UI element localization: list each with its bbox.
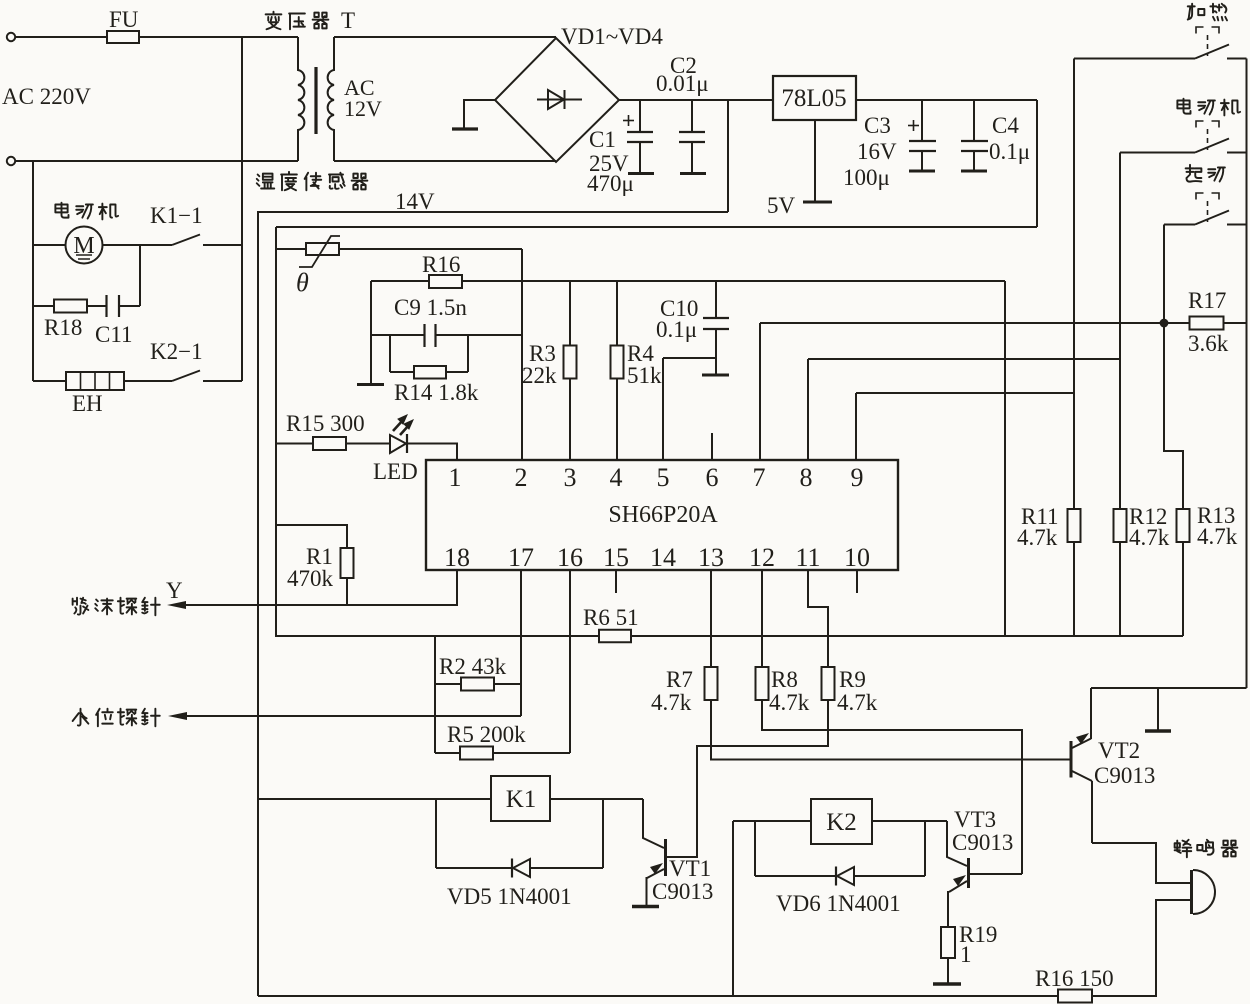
svg-text:Y: Y bbox=[166, 578, 183, 603]
AC neutral input terminal bbox=[7, 157, 15, 165]
resistor R17 bbox=[1190, 317, 1224, 330]
svg-text:C9013: C9013 bbox=[952, 830, 1013, 855]
wire 14V line bbox=[257, 211, 728, 213]
start switch dashed link bbox=[1207, 201, 1209, 222]
C1 plus sign bbox=[623, 115, 634, 126]
AC live input terminal bbox=[7, 33, 15, 41]
LED D1 bbox=[390, 434, 407, 453]
wire vertical FU line down to motor branch bbox=[241, 37, 243, 381]
motor switch dashed link bbox=[1207, 129, 1209, 150]
svg-text:C1: C1 bbox=[589, 127, 616, 152]
svg-text:AC 220V: AC 220V bbox=[2, 84, 91, 109]
VT3 ground bar bbox=[933, 982, 961, 985]
wire R9 to VT1 base bbox=[667, 700, 828, 857]
wire to K2 bbox=[733, 820, 811, 822]
label EH bbox=[72, 391, 103, 416]
svg-text:LED: LED bbox=[373, 459, 418, 484]
label start switch bbox=[1186, 165, 1225, 182]
wire R19 bottom bbox=[947, 958, 949, 983]
label R9 4.7k bbox=[837, 667, 878, 715]
resistor R9 bbox=[822, 667, 835, 700]
svg-text:470k: 470k bbox=[287, 566, 334, 591]
svg-text:4.7k: 4.7k bbox=[1197, 524, 1238, 549]
transformer T primary winding bbox=[298, 37, 304, 161]
label R7 4.7k bbox=[651, 667, 693, 715]
wire motor switch vertical bbox=[1119, 153, 1121, 637]
wire live terminal to fuse bbox=[15, 36, 107, 38]
label K1-1 bbox=[150, 203, 203, 228]
ground bar 5V bbox=[803, 201, 832, 204]
pin 15 label bbox=[603, 543, 629, 572]
resistor R15 bbox=[313, 437, 346, 450]
label VT1 C9013 bbox=[652, 856, 713, 904]
ground bar at bridge bbox=[452, 127, 478, 130]
wire R14 right bbox=[446, 371, 468, 373]
wire to K1 bbox=[258, 798, 491, 800]
pin 4 label bbox=[610, 463, 623, 492]
resistor R12 bbox=[1114, 509, 1127, 542]
wire R1 bottom bbox=[346, 578, 348, 605]
water probe arrow bbox=[168, 712, 187, 720]
motor switch blade bbox=[1195, 139, 1229, 153]
pin 13 label bbox=[698, 543, 724, 572]
svg-text:14V: 14V bbox=[395, 189, 435, 214]
switch K1-1 blade bbox=[172, 235, 200, 246]
heater EH bbox=[66, 372, 124, 390]
svg-text:C9013: C9013 bbox=[1094, 763, 1155, 788]
svg-text:8: 8 bbox=[800, 463, 813, 492]
resistor R1 bbox=[341, 548, 354, 578]
svg-text:C9013: C9013 bbox=[652, 879, 713, 904]
resistor R5 bbox=[460, 747, 493, 760]
label VD6 1N4001 bbox=[776, 891, 901, 916]
ground bar below R16 left bbox=[357, 383, 384, 386]
IC U1 SH66P20A box bbox=[426, 460, 898, 570]
wire pin8 line bbox=[808, 358, 1120, 360]
svg-text:4.7k: 4.7k bbox=[1017, 525, 1058, 550]
pin 18 label bbox=[444, 543, 470, 572]
label R5 200k bbox=[447, 722, 526, 747]
svg-text:R16: R16 bbox=[422, 252, 460, 277]
svg-text:EH: EH bbox=[72, 391, 103, 416]
pin 10 label bbox=[844, 543, 870, 572]
wire pin8 vertical bbox=[807, 359, 809, 460]
label K2-1 bbox=[150, 339, 203, 364]
wire neutral terminal to primary bottom bbox=[15, 160, 298, 162]
wire VT2 emitter rail bbox=[1091, 687, 1247, 689]
wire R14 left bbox=[390, 371, 414, 373]
wire C11 to node bbox=[120, 305, 141, 307]
svg-text:θ: θ bbox=[296, 268, 309, 297]
VT1 emitter bbox=[647, 863, 665, 906]
label R1 470k bbox=[287, 544, 334, 591]
switch K2-1 blade bbox=[172, 371, 200, 382]
label VD5 1N4001 bbox=[447, 884, 572, 909]
wire LED to pin1 bbox=[408, 444, 457, 461]
resistor R19 bbox=[941, 927, 955, 958]
svg-text:4.7k: 4.7k bbox=[1129, 525, 1170, 550]
wire C10 ground stub bbox=[715, 358, 717, 374]
svg-text:VD6 1N4001: VD6 1N4001 bbox=[776, 891, 901, 916]
svg-text:15: 15 bbox=[603, 543, 629, 572]
wire to start switch bbox=[1164, 224, 1195, 226]
label R3 22k bbox=[522, 341, 557, 388]
svg-text:2: 2 bbox=[515, 463, 528, 492]
pin 17 label bbox=[508, 543, 534, 572]
wire right edge vertical bbox=[1246, 59, 1248, 689]
svg-text:0.1μ: 0.1μ bbox=[656, 317, 697, 342]
wire EH to K2-1 bbox=[124, 380, 172, 382]
svg-text:R2 43k: R2 43k bbox=[439, 654, 507, 679]
pin 1 label bbox=[449, 463, 462, 492]
label VT2 C9013 bbox=[1094, 738, 1155, 788]
wire R16 to right corner bbox=[462, 280, 1005, 282]
svg-text:R15 300: R15 300 bbox=[286, 411, 365, 436]
buzzer bbox=[1192, 870, 1216, 914]
C3 plus sign bbox=[908, 120, 919, 131]
wire VD5 right rise bbox=[602, 799, 604, 868]
transformer T secondary winding bbox=[328, 37, 334, 161]
pin15 stub bbox=[615, 570, 617, 593]
wire R16 rail left end bbox=[371, 280, 429, 282]
svg-text:18: 18 bbox=[444, 543, 470, 572]
pin 3 label bbox=[564, 463, 577, 492]
wire R18 to C11 bbox=[87, 305, 106, 307]
label motor switch bbox=[1177, 99, 1240, 116]
wire pin12 down bbox=[761, 570, 763, 667]
label SH66P20A bbox=[608, 502, 718, 528]
relay K2 bbox=[811, 799, 872, 844]
svg-text:K1: K1 bbox=[506, 786, 537, 813]
label R15 300 bbox=[286, 411, 365, 436]
svg-text:4.7k: 4.7k bbox=[837, 690, 878, 715]
wire R2/R5 left vertical bbox=[434, 636, 436, 753]
wire R7 to VT2 base bbox=[711, 700, 1071, 760]
VT1 base lead bbox=[666, 856, 697, 858]
wire K2-1 to right vertical bbox=[203, 380, 242, 382]
svg-text:R16 150: R16 150 bbox=[1035, 966, 1114, 991]
wire R2 left bbox=[435, 683, 461, 685]
pin 14 label bbox=[650, 543, 676, 572]
svg-text:9: 9 bbox=[851, 463, 864, 492]
svg-text:R6 51: R6 51 bbox=[583, 605, 639, 630]
label R14 1.8k bbox=[394, 380, 479, 405]
pin 5 label bbox=[657, 463, 670, 492]
wire neutral down left side bbox=[32, 161, 34, 381]
label K2 bbox=[826, 809, 857, 836]
wire to motor switch bbox=[1120, 152, 1195, 154]
wire heating switch to right edge bbox=[1227, 58, 1247, 60]
label AC 220V bbox=[2, 84, 91, 109]
label R17 3.6k bbox=[1188, 288, 1229, 356]
wire R8 to VT3 base bbox=[762, 700, 1022, 874]
wire pin7 vertical bbox=[759, 323, 761, 460]
wire VD6 left bbox=[755, 875, 836, 877]
resistor R7 bbox=[705, 667, 718, 700]
svg-text:5V: 5V bbox=[767, 193, 796, 218]
wire 5V rail 78L05 to corner bbox=[856, 99, 1037, 101]
resistor R16 bbox=[429, 275, 462, 288]
wire R16 rail right corner down bbox=[1004, 281, 1006, 636]
wire VT3 collector bbox=[947, 821, 967, 866]
svg-text:VT2: VT2 bbox=[1098, 738, 1140, 763]
svg-text:K2−1: K2−1 bbox=[150, 339, 203, 364]
wire R14 left drop bbox=[389, 335, 391, 372]
label LED bbox=[373, 459, 418, 484]
svg-text:10: 10 bbox=[844, 543, 870, 572]
label 5V bbox=[767, 193, 796, 218]
svg-text:R18: R18 bbox=[44, 315, 82, 340]
label R6 51 bbox=[583, 605, 639, 630]
resistor R4 bbox=[611, 346, 624, 379]
label foam probe bbox=[73, 598, 160, 616]
svg-text:SH66P20A: SH66P20A bbox=[608, 502, 718, 528]
wire C10 bottom to pin5 bbox=[663, 357, 716, 359]
pin10 stub bbox=[856, 570, 858, 593]
wire pin11 jog bbox=[808, 570, 828, 667]
wire 14V left edge down bbox=[257, 212, 259, 996]
pin6 stub bbox=[711, 433, 713, 460]
svg-text:C11: C11 bbox=[95, 322, 133, 347]
wire thermistor line down to IC pin 2 bbox=[521, 249, 523, 460]
svg-text:0.01μ: 0.01μ bbox=[656, 71, 709, 96]
fuse FU bbox=[107, 31, 139, 43]
wire pin3 vertical bbox=[569, 281, 571, 460]
wire motor switch to right edge bbox=[1227, 152, 1247, 154]
thermistor theta body bbox=[306, 243, 339, 255]
bridge rectifier VD1~VD4 diamond bbox=[495, 38, 619, 162]
svg-text:7: 7 bbox=[753, 463, 766, 492]
wire to heating switch bbox=[1074, 58, 1195, 60]
wire VD6 right bbox=[854, 875, 925, 877]
svg-text:R9: R9 bbox=[839, 667, 866, 692]
svg-text:3.6k: 3.6k bbox=[1188, 331, 1229, 356]
wire left to heater EH bbox=[33, 380, 66, 382]
wire secondary bottom to bridge bbox=[334, 160, 556, 162]
wire 5V rail to left bbox=[276, 226, 1037, 228]
label motor bbox=[55, 203, 118, 220]
wire rail down to 14V line bbox=[727, 100, 729, 212]
wire pin17 down bbox=[520, 570, 522, 716]
ground bar below C10 bbox=[702, 374, 729, 377]
svg-text:4: 4 bbox=[610, 463, 623, 492]
svg-text:R17: R17 bbox=[1188, 288, 1226, 313]
label Y bbox=[166, 578, 183, 603]
label R8 4.7k bbox=[769, 667, 810, 715]
foam probe arrow bbox=[167, 601, 186, 609]
transistor VT1 base bar bbox=[664, 839, 667, 876]
wire 14V bottom rail bbox=[258, 995, 1157, 997]
svg-text:78L05: 78L05 bbox=[781, 85, 846, 112]
svg-text:470μ: 470μ bbox=[587, 171, 634, 196]
svg-text:VD1~VD4: VD1~VD4 bbox=[561, 24, 663, 49]
svg-text:K2: K2 bbox=[826, 809, 857, 836]
capacitor C2 bbox=[679, 100, 706, 174]
wire motor to K1-1 bbox=[103, 244, 173, 246]
heating switch blade bbox=[1195, 45, 1229, 59]
wire 14V rail bridge to 78L05 bbox=[619, 99, 773, 101]
resistor R2 bbox=[461, 678, 494, 691]
VT3 base lead bbox=[969, 873, 1022, 875]
label C9 1.5n bbox=[394, 295, 467, 320]
wire R5 right bbox=[493, 752, 570, 754]
wire K1 to VT1 bbox=[550, 798, 643, 800]
label R18 bbox=[44, 315, 82, 340]
label VT3 C9013 bbox=[952, 807, 1013, 855]
start switch bracket bbox=[1196, 193, 1219, 200]
regulator 78L05 bbox=[773, 76, 856, 120]
LED arrows bbox=[393, 415, 413, 435]
label R2 43k bbox=[439, 654, 507, 679]
bridge inner diode bbox=[537, 90, 582, 109]
resistor R18 bbox=[54, 300, 87, 313]
label R19 1 bbox=[959, 922, 997, 967]
VT1 ground bar bbox=[632, 905, 659, 908]
transistor VT2 base bar bbox=[1070, 741, 1073, 778]
label theta bbox=[296, 268, 309, 297]
label C3 16V 100u bbox=[843, 113, 897, 190]
capacitor C3 (electrolytic 100u) bbox=[909, 100, 936, 171]
wire pin16 down bbox=[569, 570, 571, 753]
thermistor strike bbox=[299, 236, 340, 267]
pin 16 label bbox=[557, 543, 583, 572]
wire bridge left vertex to ground bbox=[464, 100, 495, 128]
svg-text:C9 1.5n: C9 1.5n bbox=[394, 295, 467, 320]
diode VD5 bbox=[512, 859, 530, 878]
label FU bbox=[109, 7, 139, 32]
wire left to R18 bbox=[33, 305, 54, 307]
wire motor node down to C11 bbox=[139, 245, 141, 306]
label buzzer bbox=[1175, 840, 1238, 858]
svg-text:C3: C3 bbox=[864, 113, 891, 138]
svg-text:11: 11 bbox=[795, 543, 820, 572]
resistor R14 bbox=[414, 366, 446, 379]
wire VD6 right rise bbox=[924, 821, 926, 876]
svg-text:3: 3 bbox=[564, 463, 577, 492]
svg-text:17: 17 bbox=[508, 543, 534, 572]
svg-text:T: T bbox=[341, 8, 355, 33]
wire pin4 vertical bbox=[616, 281, 618, 460]
wire pin7 to R17 line bbox=[760, 322, 1247, 324]
wire VT1 collector bbox=[643, 799, 664, 848]
wire K2 branch drop bbox=[732, 821, 734, 996]
resistor R6 bbox=[599, 630, 631, 643]
junction node R17 bbox=[1160, 319, 1169, 328]
wire pin9 line bbox=[856, 392, 1074, 394]
svg-text:1: 1 bbox=[960, 942, 972, 967]
svg-text:R5 200k: R5 200k bbox=[447, 722, 526, 747]
wire R2 right bbox=[494, 683, 521, 685]
label C4 0.1u bbox=[989, 113, 1030, 164]
wire 5V net left edge down bbox=[275, 227, 277, 637]
wire VD6 left drop bbox=[754, 821, 756, 876]
svg-text:14: 14 bbox=[650, 543, 676, 572]
resistor R16 150 bbox=[1058, 990, 1092, 1003]
wire 78L05 ground lead bbox=[814, 120, 816, 201]
svg-text:4.7k: 4.7k bbox=[769, 690, 810, 715]
label K1 bbox=[506, 786, 537, 813]
label R4 51k bbox=[627, 341, 662, 388]
pin 11 label bbox=[795, 543, 820, 572]
svg-text:4.7k: 4.7k bbox=[651, 690, 692, 715]
wire pin5 vertical bbox=[662, 358, 664, 460]
svg-text:C4: C4 bbox=[992, 113, 1019, 138]
label R13 4.7k bbox=[1197, 503, 1238, 549]
diode VD6 bbox=[836, 867, 854, 886]
resistor R3 bbox=[564, 346, 577, 379]
wire K1-1 to right vertical bbox=[203, 244, 242, 246]
wire fuse to transformer primary bbox=[139, 36, 298, 38]
wire heating switch vertical bbox=[1073, 59, 1075, 637]
motor switch bracket bbox=[1196, 121, 1219, 128]
heating switch bracket bbox=[1196, 27, 1219, 34]
pin 9 label bbox=[851, 463, 864, 492]
svg-text:12V: 12V bbox=[344, 96, 382, 121]
label temperature sensor bbox=[257, 172, 368, 190]
label VD1~VD4 bbox=[561, 24, 663, 49]
relay K1 bbox=[491, 776, 550, 821]
VT2 collector bbox=[1072, 771, 1092, 843]
wire C9 right bbox=[436, 334, 522, 336]
svg-text:5: 5 bbox=[657, 463, 670, 492]
VT2 ground stub bbox=[1157, 688, 1159, 730]
svg-text:16: 16 bbox=[557, 543, 583, 572]
capacitor C1 (electrolytic 470u) bbox=[627, 100, 654, 174]
pin 7 label bbox=[753, 463, 766, 492]
transformer core bbox=[314, 67, 317, 134]
label C2 0.01u bbox=[656, 53, 709, 96]
svg-text:22k: 22k bbox=[522, 363, 557, 388]
wire R16 left vertical to ground bbox=[370, 281, 372, 384]
resistor R11 bbox=[1068, 509, 1081, 542]
VT2 emitter lead up bbox=[1090, 688, 1092, 739]
start switch blade bbox=[1195, 211, 1229, 225]
heating switch dashed link bbox=[1207, 35, 1209, 56]
label C10 0.1u bbox=[656, 296, 698, 342]
pin 8 label bbox=[800, 463, 813, 492]
wire 5V rail right corner down bbox=[1036, 100, 1038, 227]
wire pin13 down bbox=[710, 570, 712, 667]
wire R1 top link bbox=[276, 525, 347, 548]
svg-text:R14 1.8k: R14 1.8k bbox=[394, 380, 479, 405]
label R12 4.7k bbox=[1129, 504, 1170, 550]
svg-text:100μ: 100μ bbox=[843, 165, 890, 190]
label C1 25V 470u bbox=[587, 127, 634, 196]
wire ground rail bbox=[276, 635, 1183, 637]
wire pin17 to water probe bbox=[186, 715, 521, 717]
svg-text:VT1: VT1 bbox=[669, 856, 711, 881]
resistor R8 bbox=[756, 667, 769, 700]
wire VD5 left drop bbox=[435, 799, 437, 868]
label C11 bbox=[95, 322, 133, 347]
wire start switch vertical bbox=[1164, 225, 1183, 637]
label R16 bbox=[422, 252, 460, 277]
wire left to motor bbox=[33, 244, 66, 246]
svg-text:VD5 1N4001: VD5 1N4001 bbox=[447, 884, 572, 909]
wire R14 right rise bbox=[467, 335, 469, 372]
label water probe bbox=[73, 709, 160, 727]
svg-text:12: 12 bbox=[749, 543, 775, 572]
VT3 emitter bbox=[948, 875, 967, 927]
svg-text:0.1μ: 0.1μ bbox=[989, 139, 1030, 164]
wire pin18 to foam probe bbox=[185, 570, 457, 605]
capacitor C4 bbox=[961, 100, 988, 171]
resistor R13 bbox=[1177, 509, 1190, 542]
wire start switch to right edge bbox=[1227, 224, 1247, 226]
wire collector to buzzer bbox=[1092, 843, 1190, 883]
pin 6 label bbox=[706, 463, 719, 492]
label R16 150 bbox=[1035, 966, 1114, 991]
